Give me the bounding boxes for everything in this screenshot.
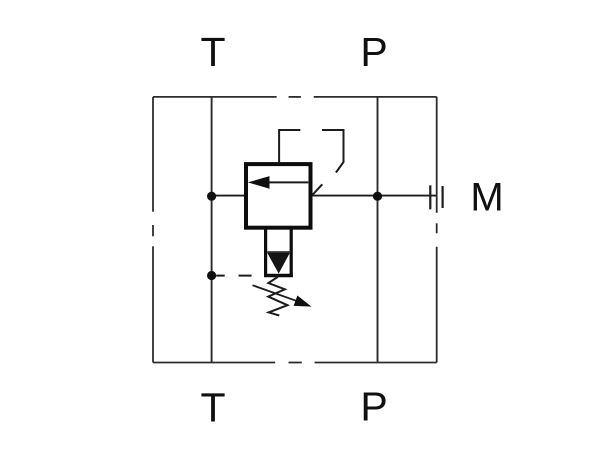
P gallery line	[377, 97, 379, 363]
manifold block bottom edge (chain line)	[153, 362, 437, 364]
M port plug bar (outer)	[442, 186, 444, 208]
adjustment arrow head	[294, 296, 312, 307]
svg-text:T: T	[200, 384, 225, 430]
drain line (dashed) to T gallery	[216, 275, 251, 277]
relief valve flow arrow	[248, 176, 308, 189]
valve seat line	[267, 251, 290, 253]
valve seat cartridge left wall	[264, 228, 267, 277]
wire: T junction to valve inlet	[212, 195, 245, 197]
pilot line (dashed) end segment at valve port	[312, 184, 322, 195]
manifold block right edge (chain line)	[436, 97, 438, 363]
manifold block left edge (chain line)	[152, 97, 154, 363]
T gallery line	[211, 97, 213, 363]
valve seat cartridge bottom wall	[264, 274, 293, 277]
pilot line (dashed) from valve top	[279, 130, 300, 164]
manifold block top edge (chain line)	[153, 96, 437, 98]
M port plug bar (inner)	[429, 185, 431, 209]
valve seat cartridge right wall	[290, 228, 293, 277]
junction node: T-valve	[207, 192, 216, 201]
wire: valve outlet to P junction and M port	[312, 195, 436, 197]
junction node: T drain	[207, 271, 216, 280]
svg-text:P: P	[360, 29, 387, 75]
svg-text:M: M	[470, 176, 503, 220]
pilot line (dashed) corner segment	[322, 130, 344, 173]
spring	[268, 277, 287, 316]
poppet (filled triangle)	[267, 253, 290, 274]
adjustment arrow shaft	[253, 285, 300, 302]
relief valve V1 body	[246, 164, 311, 228]
svg-text:P: P	[360, 383, 387, 429]
junction node: P-valve	[373, 192, 382, 201]
svg-text:T: T	[200, 29, 225, 75]
